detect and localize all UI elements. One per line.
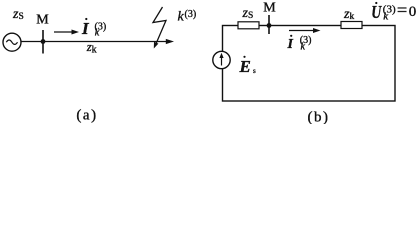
svg-text:k: k xyxy=(178,10,185,25)
svg-text:M: M xyxy=(36,13,49,28)
svg-text:(a): (a) xyxy=(76,107,97,123)
svg-text:k: k xyxy=(95,27,100,38)
node M tick (fig b) xyxy=(268,15,270,34)
current arrow Ik3 (fig b) xyxy=(289,28,321,33)
svg-text:k: k xyxy=(301,41,306,52)
svg-text:E: E xyxy=(239,57,251,76)
resistor zk box (fig b) xyxy=(341,22,362,29)
wire (fig a main line) xyxy=(21,41,166,43)
wire end arrowhead (fig a) xyxy=(166,39,174,44)
node M tick (fig a) xyxy=(42,30,44,54)
svg-text:0: 0 xyxy=(409,4,417,20)
emf source Es (fig b) xyxy=(213,51,230,68)
circuit loop wire (fig b rectangle) xyxy=(223,26,396,102)
svg-text:zk: zk xyxy=(343,7,354,22)
svg-text:zS: zS xyxy=(12,7,24,22)
label Ik3 (fig b) xyxy=(287,35,312,53)
svg-text:=: = xyxy=(397,0,407,20)
label Ik3 (fig a) xyxy=(81,18,106,38)
label Uk3 = 0 (fig b) xyxy=(371,0,416,22)
junction dot M (fig b) xyxy=(267,23,272,28)
ac source G (fig a) xyxy=(3,33,21,51)
svg-text:I: I xyxy=(287,37,294,52)
svg-text:U: U xyxy=(371,2,382,22)
svg-text:zS: zS xyxy=(242,6,254,21)
fault lightning bolt k3 (fig a) xyxy=(153,7,166,49)
svg-text:M: M xyxy=(263,1,276,16)
resistor zS box (fig b) xyxy=(238,22,259,29)
label Es (fig b) xyxy=(239,56,257,76)
svg-text:s: s xyxy=(253,67,256,75)
svg-text:(3): (3) xyxy=(185,9,197,20)
junction dot M (fig a) xyxy=(41,39,46,44)
current arrow Ik3 (fig a) xyxy=(54,30,79,35)
label k3 (fig a) xyxy=(178,9,197,25)
label zS (fig a) xyxy=(12,7,24,22)
svg-text:zk: zk xyxy=(86,40,97,56)
svg-text:I: I xyxy=(81,19,90,38)
svg-text:(b): (b) xyxy=(308,110,330,125)
